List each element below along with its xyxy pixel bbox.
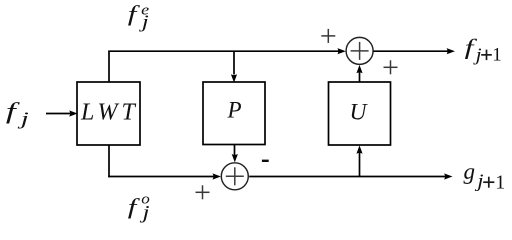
adder node top (circle plus)	[346, 37, 373, 64]
wire: top horizontal (even samples) to top adder	[108, 48, 346, 54]
block U (update)	[329, 82, 391, 145]
label f_j^o (odd samples)	[128, 192, 151, 224]
wire: branch up from bottom line into U	[356, 145, 362, 176]
label f_j^e (even samples)	[128, 1, 150, 32]
wire: P output down into bottom adder	[232, 145, 238, 163]
plus sign below-right of top adder	[384, 60, 398, 74]
svg-text:P: P	[226, 98, 241, 123]
plus sign left of bottom adder	[196, 185, 210, 199]
wire: bottom horizontal (odd samples) into bottom adder	[108, 173, 221, 179]
label f_j (input)	[6, 99, 29, 129]
label g_{j+1} (output bottom)	[464, 159, 506, 194]
wire: input f_j into LWT	[46, 110, 78, 116]
wire: bottom adder to output g_{j+1}	[249, 173, 452, 179]
svg-text:1: 1	[495, 173, 505, 194]
wire: U output up into top adder	[356, 65, 362, 82]
plus sign left of top adder	[321, 29, 335, 43]
wire: top adder to output f_{j+1}	[373, 48, 455, 54]
wire: LWT bottom to odd branch corner	[108, 145, 110, 177]
svg-text:1: 1	[492, 46, 502, 66]
wire: LWT top to even branch corner	[108, 51, 110, 82]
adder node bottom (circle plus)	[221, 163, 248, 190]
svg-text:LWT: LWT	[80, 100, 139, 126]
svg-text:U: U	[350, 100, 369, 126]
label f_{j+1} (output top)	[465, 35, 502, 66]
svg-text:g: g	[464, 159, 476, 184]
block LWT	[77, 82, 140, 145]
block P (predict)	[203, 82, 265, 145]
wire: branch down into P	[231, 51, 237, 82]
minus sign right of bottom adder	[262, 160, 269, 162]
